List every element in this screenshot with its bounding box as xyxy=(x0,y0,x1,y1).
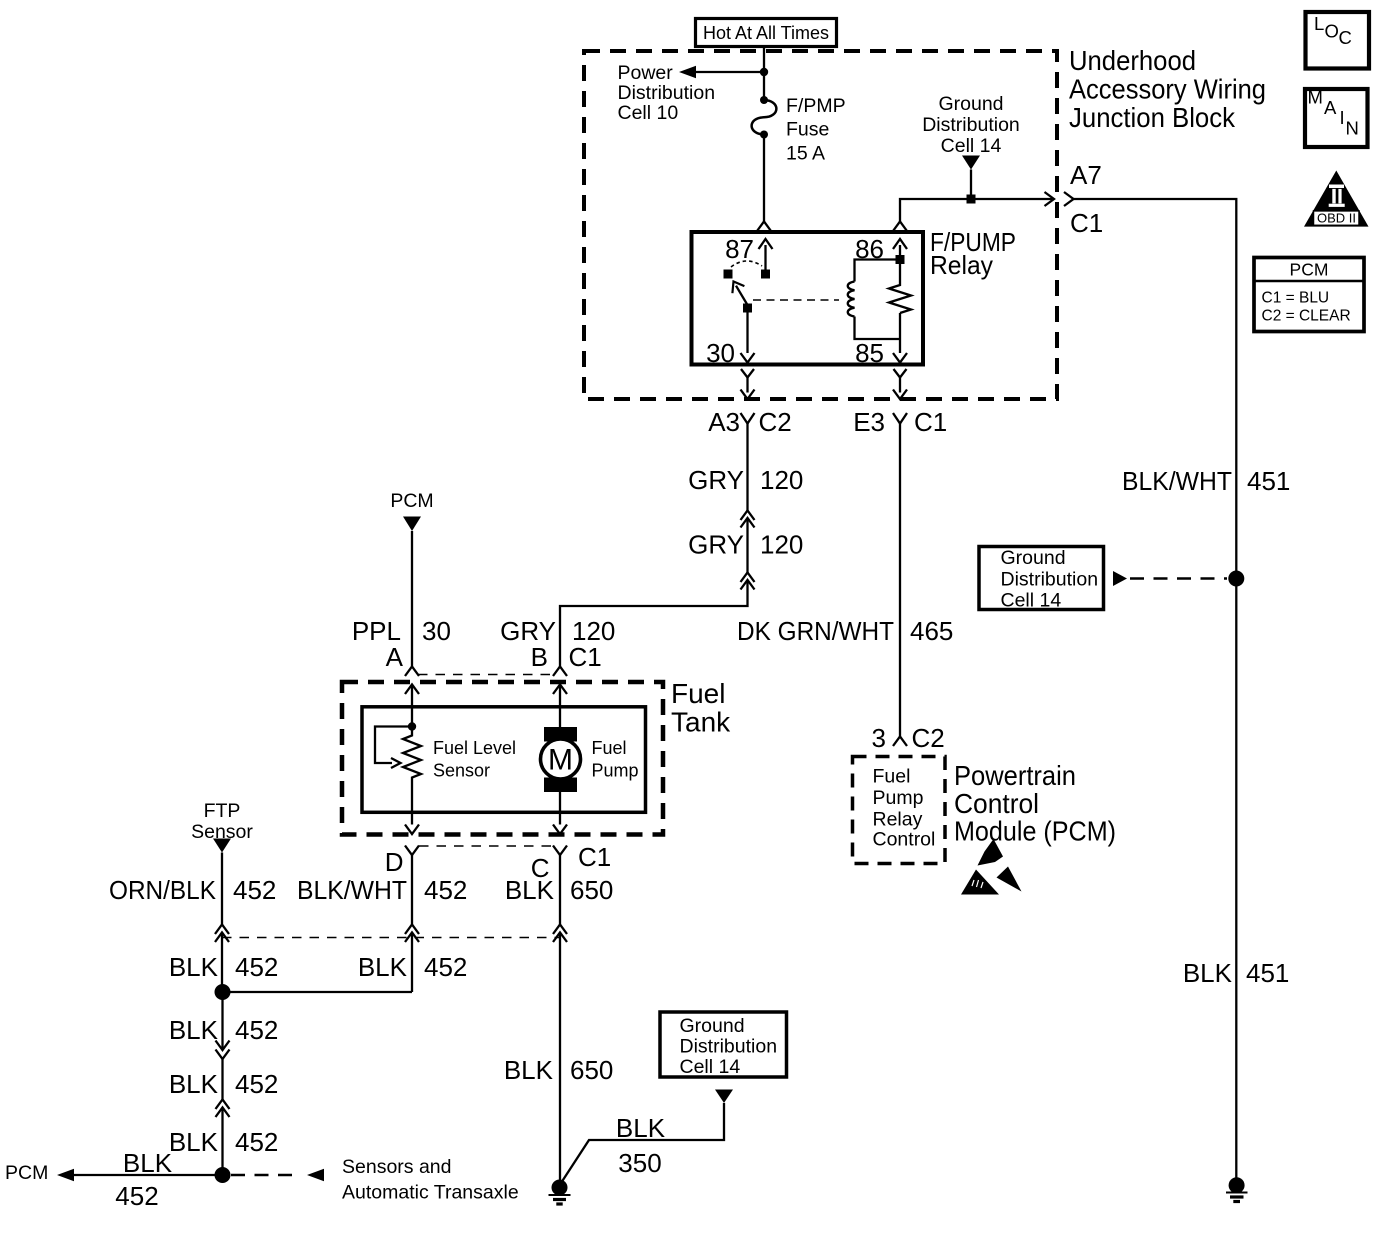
svg-text:C1: C1 xyxy=(1070,208,1103,238)
svg-text:B: B xyxy=(531,642,548,672)
svg-text:Relay: Relay xyxy=(873,809,923,831)
svg-text:BLK: BLK xyxy=(616,1113,666,1143)
ground distribution bottom triangle xyxy=(715,1090,733,1104)
svg-text:452: 452 xyxy=(235,1069,278,1099)
splice GRY 120 upper xyxy=(741,511,755,528)
hot at all times box xyxy=(696,19,837,47)
svg-text:C1: C1 xyxy=(578,842,611,872)
svg-text:M: M xyxy=(1308,87,1323,108)
inline connector dashed line xyxy=(222,937,560,939)
wire ORN/BLK 452 xyxy=(109,853,276,925)
wire BLK 452 to PCM xyxy=(5,1148,223,1211)
svg-text:452: 452 xyxy=(235,1015,278,1045)
svg-text:452: 452 xyxy=(233,875,276,905)
svg-text:C1: C1 xyxy=(914,407,947,437)
wire PPL 30 xyxy=(352,531,451,667)
relay pin 87 xyxy=(725,234,772,279)
svg-text:Ground: Ground xyxy=(680,1015,745,1037)
splice BLK/WHT xyxy=(405,925,419,943)
FTP sensor arrow triangle xyxy=(213,839,231,853)
svg-text:BLK: BLK xyxy=(169,1015,219,1045)
svg-text:3: 3 xyxy=(872,723,886,753)
node A7/C1 labels xyxy=(1070,160,1103,238)
connector A3/C2 below relay pin 30 xyxy=(708,369,792,437)
relay pin 85 xyxy=(855,313,907,368)
node D connector xyxy=(385,846,419,878)
svg-text:A7: A7 xyxy=(1070,160,1102,190)
wire BLK 650 to ground xyxy=(504,933,614,1181)
ground left symbol xyxy=(549,1180,571,1205)
relay coil xyxy=(848,260,900,340)
svg-text:PCM: PCM xyxy=(390,490,433,512)
svg-text:Fuel: Fuel xyxy=(592,738,627,758)
svg-text:PCM: PCM xyxy=(5,1162,48,1184)
node A connector xyxy=(386,642,419,676)
fuel level sensor wiper xyxy=(375,727,412,769)
svg-text:Cell 14: Cell 14 xyxy=(680,1056,741,1078)
svg-text:BLK: BLK xyxy=(1183,958,1233,988)
svg-text:Tank: Tank xyxy=(671,707,731,738)
wire BLK 452 left segment xyxy=(169,933,279,993)
relay switch pivot xyxy=(724,261,763,279)
svg-text:F/PMP: F/PMP xyxy=(786,95,846,117)
ground distribution top triangle xyxy=(962,156,980,204)
dashed wire to sensors xyxy=(231,1156,519,1204)
svg-text:ORN/BLK: ORN/BLK xyxy=(109,875,217,905)
svg-text:M: M xyxy=(548,744,573,777)
connector E3/C1 below relay pin 85 xyxy=(853,369,947,437)
svg-text:Hot At All Times: Hot At All Times xyxy=(703,23,829,43)
svg-text:Cell 14: Cell 14 xyxy=(1001,590,1062,612)
svg-text:120: 120 xyxy=(760,465,803,495)
svg-text:N: N xyxy=(1346,118,1359,139)
svg-text:Relay: Relay xyxy=(930,250,993,280)
fuel level sensor label xyxy=(433,738,516,781)
svg-text:A3: A3 xyxy=(708,407,740,437)
svg-text:650: 650 xyxy=(570,1055,613,1085)
tank pin A arrow xyxy=(405,685,419,727)
ground distribution cell 14 bottom box xyxy=(660,1012,787,1078)
wire BLK/WHT 451 xyxy=(1074,199,1291,1179)
svg-text:Distribution: Distribution xyxy=(922,114,1020,136)
junction splice dot xyxy=(215,984,413,1000)
svg-text:120: 120 xyxy=(760,530,803,560)
svg-text:O: O xyxy=(1325,21,1339,42)
relay switch blade xyxy=(732,282,752,313)
splice BLK 452 down xyxy=(216,1041,230,1060)
node B/C1 connector xyxy=(531,642,602,676)
svg-text:452: 452 xyxy=(115,1181,158,1211)
svg-text:BLK: BLK xyxy=(123,1148,173,1178)
svg-text:C1: C1 xyxy=(569,642,602,672)
wire battery feed xyxy=(760,47,768,101)
svg-text:C1 = BLU: C1 = BLU xyxy=(1262,290,1330,307)
svg-text:DK GRN/WHT: DK GRN/WHT xyxy=(737,616,894,646)
svg-text:Ground: Ground xyxy=(938,93,1003,115)
svg-text:BLK: BLK xyxy=(169,1069,219,1099)
ground distribution cell 14 top label xyxy=(922,93,1020,157)
svg-text:Module (PCM): Module (PCM) xyxy=(954,816,1116,847)
svg-text:Ground: Ground xyxy=(1001,547,1066,569)
svg-text:650: 650 xyxy=(570,875,613,905)
svg-text:OBD II: OBD II xyxy=(1317,211,1356,226)
power distribution arrow xyxy=(618,62,765,124)
PCM top label xyxy=(390,490,433,512)
svg-text:L: L xyxy=(1314,13,1324,34)
svg-text:Control: Control xyxy=(873,829,936,851)
svg-text:452: 452 xyxy=(424,952,467,982)
svg-text:BLK: BLK xyxy=(169,1127,219,1157)
connector 3/C2 PCM xyxy=(872,723,945,753)
svg-text:Cell 14: Cell 14 xyxy=(941,135,1002,157)
relay resistor xyxy=(889,264,911,313)
wire fuse to relay xyxy=(757,135,771,232)
PCM arrow triangle xyxy=(403,517,421,532)
splice BLK 452 up xyxy=(216,1100,230,1118)
ESD symbol xyxy=(961,839,1022,895)
svg-text:E3: E3 xyxy=(853,407,885,437)
svg-text:Powertrain: Powertrain xyxy=(954,760,1076,791)
ground distribution right arrow to wire xyxy=(1113,571,1244,587)
wire BLK 350 xyxy=(561,1103,724,1183)
svg-text:BLK/WHT: BLK/WHT xyxy=(1122,466,1232,496)
wire DK GRN/WHT 465 xyxy=(737,424,953,737)
svg-text:452: 452 xyxy=(235,952,278,982)
svg-text:350: 350 xyxy=(618,1148,661,1178)
svg-text:30: 30 xyxy=(706,338,735,368)
svg-text:Pump: Pump xyxy=(873,787,924,809)
svg-text:BLK: BLK xyxy=(358,952,408,982)
svg-text:85: 85 xyxy=(855,338,884,368)
node C/C1 connector xyxy=(531,842,612,883)
powertrain control module label xyxy=(954,760,1116,847)
svg-text:BLK/WHT: BLK/WHT xyxy=(297,875,407,905)
svg-text:Fuel: Fuel xyxy=(671,678,725,709)
svg-text:BLK: BLK xyxy=(169,952,219,982)
wire coil to A7 connector xyxy=(893,192,1074,231)
splice ORN/BLK xyxy=(215,925,229,943)
svg-text:452: 452 xyxy=(424,875,467,905)
svg-text:451: 451 xyxy=(1247,466,1290,496)
fuel tank inner box xyxy=(362,707,646,813)
tank pin D wire xyxy=(405,784,419,835)
svg-text:C2: C2 xyxy=(912,723,945,753)
svg-text:BLK: BLK xyxy=(504,1055,554,1085)
F/PUMP relay box xyxy=(692,227,1017,365)
svg-text:Sensor: Sensor xyxy=(433,761,490,781)
svg-text:87: 87 xyxy=(725,234,754,264)
svg-text:C2 = CLEAR: C2 = CLEAR xyxy=(1262,308,1351,325)
svg-text:A: A xyxy=(386,642,404,672)
underhood junction block dashed box xyxy=(584,51,1057,399)
splice GRY 120 lower xyxy=(741,573,755,590)
svg-text:Fuel Level: Fuel Level xyxy=(433,738,516,758)
svg-text:C: C xyxy=(1339,27,1352,48)
ground right symbol xyxy=(1226,1177,1248,1201)
fuel level sensor resistor xyxy=(403,727,421,784)
wire BLK 650 from C xyxy=(505,855,614,925)
relay pin 86 xyxy=(855,234,907,264)
wire BLK/WHT 452 from D xyxy=(297,855,467,925)
svg-text:FTP: FTP xyxy=(204,800,241,822)
tank pin B arrow xyxy=(553,685,567,728)
svg-text:Fuse: Fuse xyxy=(786,119,829,141)
svg-text:30: 30 xyxy=(422,616,451,646)
svg-text:D: D xyxy=(385,847,404,877)
connector dashed line A-B xyxy=(418,674,553,676)
relay pin 30 xyxy=(706,308,754,368)
svg-text:15 A: 15 A xyxy=(786,143,825,165)
svg-text:Sensors and: Sensors and xyxy=(342,1156,452,1178)
underhood junction block label xyxy=(1069,45,1266,133)
wire BLK 452 segment 5 xyxy=(169,1108,279,1176)
wire BLK 452 segment 4 xyxy=(169,1059,279,1100)
ground distribution cell 14 right box xyxy=(979,547,1104,612)
wire BLK 452 segment 3 xyxy=(169,992,279,1050)
FTP sensor label xyxy=(191,800,253,843)
svg-text:Distribution: Distribution xyxy=(618,82,716,104)
svg-text:BLK: BLK xyxy=(505,875,555,905)
fuel pump label xyxy=(592,738,639,781)
connector dashed line D-C xyxy=(419,845,553,847)
junction dot sensors xyxy=(215,1167,231,1183)
svg-text:Distribution: Distribution xyxy=(1001,569,1099,591)
fuse F/PMP 15A xyxy=(752,95,846,165)
svg-text:C2: C2 xyxy=(759,407,792,437)
wire GRY 120 to fuel tank B xyxy=(500,580,747,667)
svg-text:Pump: Pump xyxy=(592,761,639,781)
fuel level sensor node xyxy=(408,722,416,730)
fuel pump relay control dashed box xyxy=(853,757,946,864)
svg-text:Accessory Wiring: Accessory Wiring xyxy=(1069,74,1266,105)
PCM connector color table xyxy=(1254,258,1364,332)
fuel pump motor xyxy=(541,727,581,792)
OBD II triangle xyxy=(1304,171,1369,227)
svg-text:I: I xyxy=(1340,107,1345,128)
LOC box xyxy=(1306,12,1370,69)
relay linkage dashed xyxy=(753,299,839,301)
svg-text:451: 451 xyxy=(1246,958,1289,988)
svg-text:Junction Block: Junction Block xyxy=(1069,102,1236,133)
svg-text:465: 465 xyxy=(910,616,953,646)
wire GRY 120 upper segment xyxy=(688,424,803,511)
svg-text:Fuel: Fuel xyxy=(873,766,911,788)
svg-text:452: 452 xyxy=(235,1127,278,1157)
svg-text:Control: Control xyxy=(954,788,1039,819)
svg-text:Underhood: Underhood xyxy=(1069,45,1196,76)
svg-text:Distribution: Distribution xyxy=(680,1036,778,1058)
splice BLK 650 xyxy=(553,925,567,943)
svg-text:Cell 10: Cell 10 xyxy=(618,102,679,124)
svg-text:GRY: GRY xyxy=(688,530,744,560)
svg-text:Automatic Transaxle: Automatic Transaxle xyxy=(342,1182,519,1204)
svg-text:GRY: GRY xyxy=(688,465,744,495)
fuel tank dashed box xyxy=(342,678,731,835)
wire BLK 452 from D segment xyxy=(358,933,468,993)
tank pin C wire xyxy=(553,792,567,834)
wire GRY 120 lower segment xyxy=(688,518,803,573)
svg-text:Power: Power xyxy=(618,62,674,84)
svg-text:PCM: PCM xyxy=(1290,260,1329,280)
MAIN box xyxy=(1305,87,1368,148)
svg-text:A: A xyxy=(1324,97,1337,118)
